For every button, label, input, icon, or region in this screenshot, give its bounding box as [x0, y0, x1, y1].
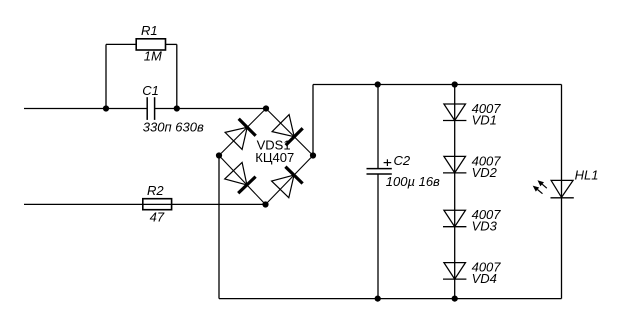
svg-text:VD4: VD4 — [472, 271, 497, 286]
diode VD4 1N4007 — [443, 263, 466, 280]
capacitor C2 bottom plate — [367, 173, 392, 175]
diode VD2 1N4007 — [443, 156, 466, 173]
LED HL1 cathode bar — [551, 197, 574, 199]
svg-text:VD2: VD2 — [472, 165, 498, 180]
capacitor C2 top plate — [367, 168, 392, 170]
junction dot: diode chain bottom — [452, 296, 458, 302]
node: bridge right (plus) — [310, 152, 316, 158]
bridge diode VDS1 upper-right — [272, 115, 303, 146]
junction dot: R1/C1 left — [103, 105, 109, 111]
bridge diode VDS1 lower-right — [272, 167, 303, 198]
wire: diode chain vertical — [454, 85, 456, 299]
wire: R1 left vertical branch — [105, 44, 107, 108]
wire: lower AC input through R2 to bridge bottom node — [24, 203, 266, 205]
svg-text:1M: 1M — [144, 48, 162, 63]
svg-text:330п 630в: 330п 630в — [143, 120, 204, 135]
svg-text:100µ 16в: 100µ 16в — [386, 174, 440, 189]
wire: R1 right horizontal lead — [166, 43, 177, 45]
wire: C1 right plate to bridge top node — [155, 108, 266, 110]
wire: R1 right vertical branch — [176, 44, 178, 108]
wire: C2 top lead — [377, 85, 379, 169]
node: bridge top (AC) — [263, 105, 269, 111]
node: bridge left (minus) — [216, 152, 222, 158]
wire: LED branch vertical — [561, 85, 563, 299]
LED HL1 emission arrow lower — [533, 186, 543, 194]
wire: R1 left horizontal lead — [106, 43, 136, 45]
diode VD3 1N4007 — [443, 210, 466, 227]
LED HL1 triangle — [551, 180, 573, 197]
bridge edge wire: left node to bottom node — [219, 156, 266, 205]
svg-text:HL1: HL1 — [575, 167, 599, 182]
capacitor C1 left plate — [146, 97, 148, 120]
bridge diode VDS1 upper-left — [225, 119, 256, 150]
svg-text:R2: R2 — [147, 183, 164, 198]
node: bridge bottom (AC) — [262, 201, 268, 207]
wire: bridge left node down to minus rail — [218, 156, 220, 299]
wire: bridge right node up to plus rail — [312, 85, 314, 156]
junction dot: C2 top — [375, 81, 381, 87]
bridge diode VDS1 lower-left — [225, 162, 256, 193]
wire: upper AC input from left edge to C1 left plate — [24, 108, 147, 110]
junction dot: R1/C1 right — [174, 105, 180, 111]
junction dot: diode chain top — [452, 81, 458, 87]
svg-text:R1: R1 — [141, 23, 158, 38]
svg-text:47: 47 — [150, 209, 165, 224]
diode VD1 1N4007 — [443, 104, 466, 121]
resistor R1 body — [136, 39, 165, 50]
LED HL1 emission arrow upper — [538, 180, 547, 188]
resistor R2 body — [143, 199, 172, 210]
bridge edge wire: bottom node to right node — [266, 156, 314, 205]
svg-text:VD1: VD1 — [472, 113, 497, 128]
bridge edge wire: top node to right node — [266, 109, 313, 156]
bridge edge wire: left node to top node — [219, 109, 266, 156]
capacitor C1 right plate — [154, 97, 156, 120]
junction dot: C2 bottom — [375, 296, 381, 302]
wire: minus rail — [219, 298, 562, 300]
svg-text:C1: C1 — [142, 83, 159, 98]
svg-text:C2: C2 — [394, 153, 411, 168]
svg-text:КЦ407: КЦ407 — [255, 150, 294, 165]
wire: C2 bottom lead — [377, 174, 379, 299]
C2 plus sign — [384, 159, 392, 166]
svg-text:VD3: VD3 — [472, 219, 498, 234]
wire: plus rail — [313, 84, 562, 86]
